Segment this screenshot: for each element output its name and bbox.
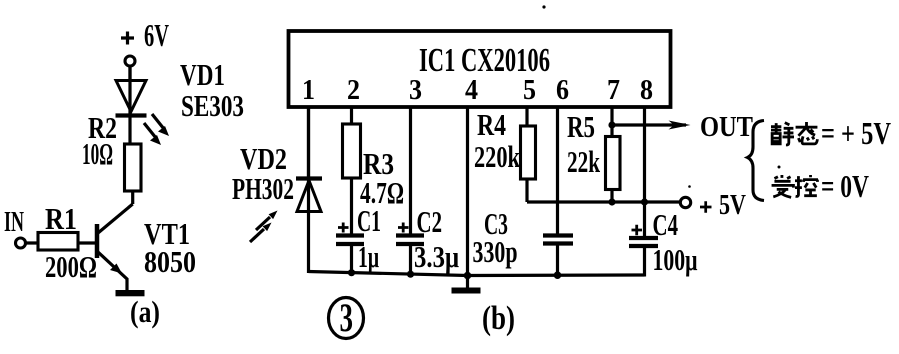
node pin7-OUT junction <box>608 121 615 128</box>
pin 7 <box>607 75 620 106</box>
svg-text:200Ω: 200Ω <box>45 249 97 284</box>
pin 2 <box>347 75 360 106</box>
svg-text:PH302: PH302 <box>232 171 294 206</box>
label 330p <box>473 234 518 269</box>
label SE303 <box>181 88 244 123</box>
label 22k <box>567 144 601 179</box>
wire pin 6 <box>556 107 559 234</box>
IC IC1 CX20106 box <box>289 31 671 107</box>
svg-text:100μ: 100μ <box>653 242 698 277</box>
pin 3 <box>409 75 422 106</box>
svg-text:C2: C2 <box>417 204 443 239</box>
svg-text:1: 1 <box>302 75 315 106</box>
annotation jingtai = +5V <box>771 115 891 151</box>
photodiode VD2 <box>296 107 322 273</box>
label C1 <box>357 203 381 238</box>
label VT1 <box>144 216 190 251</box>
label R3 <box>363 146 394 181</box>
node pin4/bus <box>464 272 472 280</box>
speck3 <box>688 185 691 188</box>
wire OUT arrow <box>612 121 691 130</box>
svg-text:5V: 5V <box>719 189 746 221</box>
pin 1 <box>302 75 315 106</box>
svg-text:2: 2 <box>347 75 360 106</box>
svg-text:220k: 220k <box>474 139 521 174</box>
resistor R1 <box>26 233 96 251</box>
wire pin 2 <box>350 107 353 124</box>
wire ground bus <box>309 272 645 276</box>
label C3 <box>484 206 508 241</box>
resistor R5 <box>606 137 621 203</box>
wire pin 5 <box>525 107 528 126</box>
wire pin 1 <box>307 107 310 177</box>
label C2 <box>417 204 443 239</box>
light arrows into VD2 <box>250 211 278 243</box>
svg-text:R5: R5 <box>567 109 595 144</box>
svg-text:IN: IN <box>4 207 24 238</box>
speck <box>542 5 545 8</box>
label VD1 <box>180 57 225 92</box>
label R2 <box>88 110 117 145</box>
label +6V <box>121 17 169 53</box>
svg-text:8050: 8050 <box>144 244 196 279</box>
resistor R2 <box>125 144 142 204</box>
terminal +5V <box>680 197 690 207</box>
wire pin 7 <box>610 107 613 136</box>
svg-text:= + 5V: = + 5V <box>821 115 891 151</box>
label 4.7ohm <box>360 175 404 210</box>
annotation shoukong = 0V <box>772 168 869 204</box>
label OUT <box>700 111 753 143</box>
label 100u <box>653 242 698 277</box>
pin 8 <box>640 75 653 106</box>
figure number 3 circled <box>329 295 364 340</box>
label R5 <box>567 109 595 144</box>
pin 5 <box>523 75 536 106</box>
label R4 <box>477 107 506 142</box>
label 3.3u <box>414 239 459 274</box>
svg-text:IC1 CX20106: IC1 CX20106 <box>419 42 550 79</box>
svg-text:3.3μ: 3.3μ <box>414 239 459 274</box>
node C3/bus <box>554 271 562 279</box>
pin 4 <box>465 75 478 106</box>
svg-text:C1: C1 <box>357 203 381 238</box>
node C2/bus <box>407 271 414 278</box>
label 200ohm <box>45 249 97 284</box>
svg-text:330p: 330p <box>473 234 518 269</box>
caption (b) <box>482 300 515 337</box>
label 10ohm <box>82 136 113 171</box>
label +5V <box>700 189 746 221</box>
svg-text:= 0V: = 0V <box>821 168 869 204</box>
svg-text:4: 4 <box>465 75 478 106</box>
svg-text:3: 3 <box>340 295 354 340</box>
svg-text:5: 5 <box>523 75 536 106</box>
svg-text:R4: R4 <box>477 107 506 142</box>
svg-text:OUT: OUT <box>700 111 753 143</box>
svg-text:3: 3 <box>409 75 422 106</box>
label 8050 <box>144 244 196 279</box>
ground (a) <box>116 290 145 296</box>
label 1u <box>358 239 379 274</box>
svg-text:SE303: SE303 <box>181 88 244 123</box>
label IC1 CX20106 <box>419 42 550 79</box>
capacitor C2 <box>396 223 424 276</box>
label VD2 <box>240 141 287 176</box>
label C4 <box>653 207 679 242</box>
label 220k <box>474 139 521 174</box>
LED VD1 <box>116 66 147 144</box>
ground (b) <box>452 288 481 294</box>
wire pin 3 <box>409 107 412 235</box>
svg-text:R1: R1 <box>45 201 77 236</box>
wire +5V rail <box>527 200 681 203</box>
svg-text:8: 8 <box>640 75 653 106</box>
label PH302 <box>232 171 294 206</box>
svg-text:(b): (b) <box>482 300 515 337</box>
svg-text:(a): (a) <box>130 294 160 329</box>
capacitor C3 <box>543 236 573 277</box>
transistor VT1 <box>97 204 133 290</box>
resistor R4 <box>521 126 536 202</box>
speck2 <box>778 166 781 169</box>
svg-text:10Ω: 10Ω <box>82 136 113 171</box>
capacitor C4 <box>629 225 658 277</box>
terminal IN <box>4 207 26 248</box>
light emission arrows <box>144 114 169 145</box>
svg-text:22k: 22k <box>567 144 601 179</box>
svg-text:7: 7 <box>607 75 620 106</box>
svg-text:1μ: 1μ <box>358 239 379 274</box>
node R5/+5V junction <box>608 198 615 205</box>
pin 6 <box>556 75 569 106</box>
svg-text:6V: 6V <box>144 17 169 53</box>
resistor R3 <box>343 124 361 235</box>
node C1/bus <box>348 269 355 276</box>
brace <box>748 121 765 201</box>
label R1 <box>45 201 77 236</box>
wire pin 8 <box>643 107 646 236</box>
node pin8/+5V junction <box>641 198 648 205</box>
caption (a) <box>130 294 160 329</box>
svg-text:VD1: VD1 <box>180 57 225 92</box>
capacitor C1 <box>336 223 364 275</box>
wire pin 4 <box>466 107 469 288</box>
svg-text:C4: C4 <box>653 207 679 242</box>
terminal +6V <box>125 56 135 81</box>
svg-text:6: 6 <box>556 75 569 106</box>
